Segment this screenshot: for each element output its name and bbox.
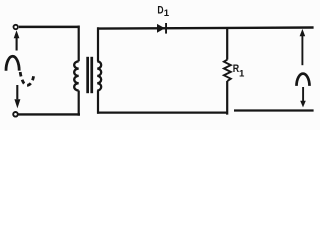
terminal top-left	[14, 25, 18, 29]
input polarity arrow up	[14, 30, 20, 50]
transformer T1 primary winding	[74, 26, 79, 116]
wire top-left horizontal	[19, 26, 80, 29]
input sine waveform dashed negative half	[20, 72, 33, 85]
transformer core	[86, 57, 93, 93]
input polarity arrow down	[14, 85, 20, 108]
output half-sine waveform	[297, 74, 310, 86]
wire bottom (resistor to output)	[234, 109, 314, 111]
wire bottom (secondary to resistor)	[97, 111, 228, 113]
output polarity arrow down	[300, 87, 306, 107]
resistor R1	[224, 28, 231, 114]
svg-text:1: 1	[164, 8, 170, 19]
terminal bottom-left	[13, 112, 18, 117]
svg-text:1: 1	[239, 68, 245, 79]
label R1	[233, 63, 245, 80]
input sine waveform solid positive half	[6, 56, 19, 70]
label D1	[157, 5, 169, 20]
output polarity arrow up	[300, 29, 306, 65]
diode D1	[157, 23, 167, 34]
transformer secondary winding	[97, 27, 101, 113]
wire bottom-left horizontal	[19, 113, 81, 115]
wire top (secondary to output, through diode)	[97, 28, 314, 29]
